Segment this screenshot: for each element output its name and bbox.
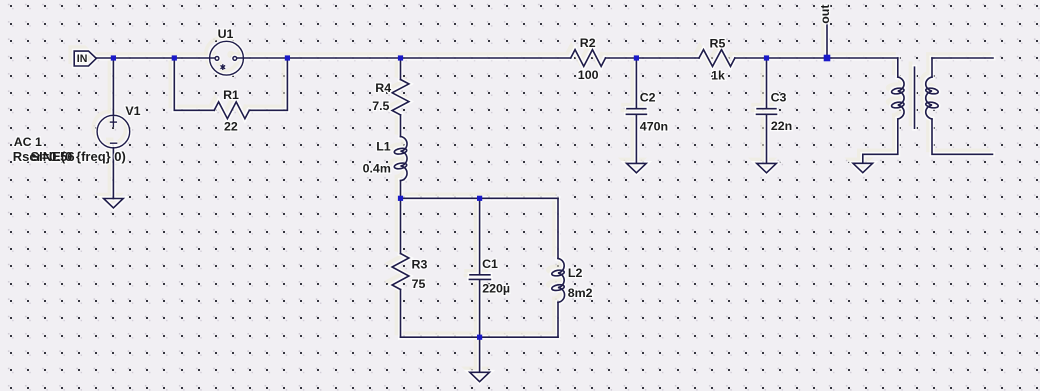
svg-text:C3: C3	[771, 91, 787, 105]
svg-text:R2: R2	[580, 36, 596, 50]
svg-text:1k: 1k	[711, 68, 725, 82]
svg-text:8m2: 8m2	[568, 286, 593, 300]
svg-text:C1: C1	[482, 257, 498, 271]
svg-text:R1: R1	[223, 88, 239, 102]
svg-text:R3: R3	[412, 257, 428, 271]
svg-text:V1: V1	[125, 104, 140, 118]
svg-text:L2: L2	[568, 266, 583, 280]
svg-text:out: out	[818, 5, 832, 24]
svg-text:L1: L1	[376, 139, 391, 153]
svg-text:0.4m: 0.4m	[363, 162, 391, 176]
svg-text:U1: U1	[218, 27, 234, 41]
svg-text:22n: 22n	[771, 119, 792, 133]
svg-text:22: 22	[224, 120, 238, 134]
svg-text:7.5: 7.5	[372, 99, 389, 113]
svg-text:C2: C2	[640, 91, 656, 105]
svg-text:SINE(0 {freq} 0): SINE(0 {freq} 0)	[31, 149, 126, 164]
svg-text:220µ: 220µ	[482, 282, 510, 296]
svg-text:470n: 470n	[640, 119, 668, 133]
svg-text:R5: R5	[710, 37, 726, 51]
svg-text:75: 75	[412, 277, 426, 291]
svg-text:IN: IN	[77, 53, 88, 65]
svg-text:100: 100	[578, 68, 599, 82]
svg-text:AC 1: AC 1	[14, 135, 42, 149]
svg-text:R4: R4	[375, 81, 391, 95]
